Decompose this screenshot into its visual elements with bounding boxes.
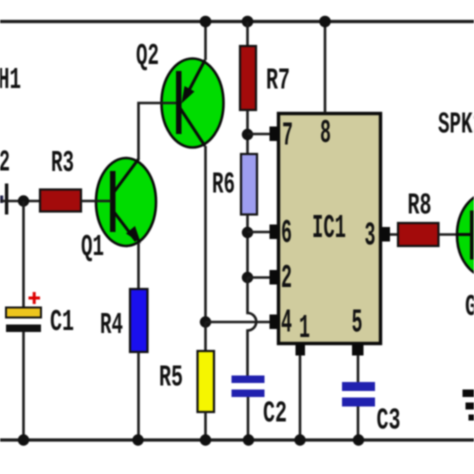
svg-text:3: 3 bbox=[365, 218, 376, 255]
wire node to IC pin 6 bbox=[248, 231, 273, 234]
svg-text:R8: R8 bbox=[408, 189, 432, 224]
speaker SPK1 body (cut off at right edge) bbox=[457, 193, 474, 277]
microphone element blue mark bbox=[0, 196, 3, 204]
pin 4 tab bbox=[270, 315, 278, 330]
wire Q1 collector up to corner and to Q2 base bbox=[139, 103, 177, 160]
pin 1 tab bbox=[296, 344, 306, 356]
node pin7 junction bbox=[242, 129, 253, 140]
svg-text:C3: C3 bbox=[377, 404, 401, 439]
resistor R8 bbox=[398, 223, 439, 246]
wire R3 to Q1 base bbox=[81, 200, 111, 203]
svg-text:C2: C2 bbox=[263, 397, 287, 432]
node top rail R7 bbox=[242, 16, 254, 28]
capacitor C1 top plate bbox=[6, 308, 41, 318]
svg-text:5: 5 bbox=[352, 305, 363, 342]
wire Q2 collector down to R5 node bbox=[204, 146, 207, 322]
resistor R4 bbox=[130, 289, 148, 352]
node C2 ground junction bbox=[243, 434, 254, 445]
svg-text:IC1: IC1 bbox=[312, 210, 346, 247]
wire C3 to ground rail bbox=[357, 407, 360, 441]
capacitor C2 bottom plate bbox=[232, 390, 265, 398]
speaker SPK1 cone bar bbox=[470, 211, 474, 260]
node C1 ground junction bbox=[18, 434, 29, 445]
wire Q1 emitter down to R4 bbox=[137, 243, 140, 289]
svg-text:Q1: Q1 bbox=[81, 230, 104, 265]
IC1 555 timer body bbox=[279, 114, 381, 344]
svg-text:R5: R5 bbox=[159, 361, 183, 396]
wire R4 to ground rail bbox=[137, 352, 140, 440]
node R4 ground junction bbox=[132, 434, 143, 445]
svg-text:R3: R3 bbox=[51, 146, 74, 181]
wire inside speaker to cone bbox=[457, 233, 470, 236]
svg-text:G: G bbox=[465, 290, 474, 325]
wire R8 to speaker bbox=[439, 233, 472, 236]
wire top rail down to Q2 emitter bbox=[204, 22, 207, 61]
svg-text:C1: C1 bbox=[50, 305, 74, 340]
svg-text:8: 8 bbox=[320, 115, 331, 152]
resistor R6 bbox=[241, 154, 257, 215]
wire R7 to pin7 node bbox=[246, 110, 249, 154]
ground symbol (speaker ground, cut off at right edge) bbox=[463, 390, 474, 421]
capacitor C1 plus sign bbox=[29, 292, 41, 304]
capacitor C3 bottom plate bbox=[342, 398, 375, 407]
pin 3 tab bbox=[382, 227, 391, 242]
wire input to R3 bbox=[0, 200, 41, 203]
resistor R3 bbox=[40, 190, 81, 212]
wire bottom ground rail bbox=[0, 438, 474, 441]
pin 7 tab bbox=[270, 127, 278, 142]
wire R5 to ground rail bbox=[204, 412, 207, 440]
microphone element plate (cut off at left edge) bbox=[5, 184, 8, 215]
svg-text:R6: R6 bbox=[212, 168, 235, 203]
node top rail pin8 bbox=[319, 16, 331, 28]
node input junction bbox=[18, 195, 29, 206]
node R5 ground junction bbox=[200, 434, 211, 445]
wire IC pin 1 to ground rail bbox=[299, 355, 302, 440]
svg-text:2: 2 bbox=[281, 260, 292, 297]
wire rail to R7 bbox=[246, 22, 249, 47]
node C3 ground junction bbox=[353, 434, 364, 445]
node pin2 junction bbox=[242, 272, 253, 283]
pin 5 tab bbox=[352, 344, 364, 356]
svg-text:H1: H1 bbox=[0, 63, 21, 98]
capacitor C1 bottom plate bbox=[6, 325, 41, 333]
wire junction down to C1 bbox=[22, 201, 25, 308]
svg-text:Q2: Q2 bbox=[136, 39, 159, 74]
node top rail Q2 bbox=[200, 16, 212, 28]
wire pin4 horizontal bbox=[206, 321, 273, 324]
svg-text:R7: R7 bbox=[266, 64, 290, 99]
wire C1 to ground rail bbox=[22, 332, 25, 440]
wire node to IC pin 7 bbox=[248, 133, 273, 136]
wire top V+ rail bbox=[0, 20, 474, 23]
svg-text:1: 1 bbox=[299, 310, 310, 347]
resistor R5 bbox=[198, 351, 215, 412]
wire C2 to ground rail bbox=[247, 397, 250, 440]
svg-text:7: 7 bbox=[282, 118, 293, 155]
wire pin 3 to R8 bbox=[390, 233, 398, 236]
transistor Q2 bbox=[162, 59, 224, 148]
capacitor C2 top plate bbox=[232, 376, 265, 384]
wire node down to R5 bbox=[204, 322, 207, 351]
transistor Q1 bbox=[96, 158, 156, 246]
svg-text:R4: R4 bbox=[100, 308, 123, 343]
wire IC pin 5 to C3 bbox=[357, 355, 360, 382]
node pin6 junction bbox=[242, 227, 253, 238]
node R5 / pin4 junction bbox=[200, 316, 211, 327]
svg-text:2: 2 bbox=[0, 146, 10, 181]
svg-text:4: 4 bbox=[281, 305, 292, 342]
wire R6 to pin6 node bbox=[246, 215, 249, 279]
wire pin2 node down with hop over pin4 wire to C2 bbox=[248, 278, 257, 377]
svg-text:SPK1: SPK1 bbox=[438, 108, 474, 143]
wire IC pin 8 to top rail bbox=[324, 22, 327, 114]
capacitor C3 top plate bbox=[342, 382, 375, 391]
wire node to IC pin 2 bbox=[248, 276, 273, 279]
svg-text:6: 6 bbox=[281, 215, 292, 252]
node pin1 ground junction bbox=[294, 434, 305, 445]
pin 6 tab bbox=[270, 225, 278, 240]
resistor R7 bbox=[240, 46, 256, 110]
pin 2 tab bbox=[270, 270, 278, 285]
